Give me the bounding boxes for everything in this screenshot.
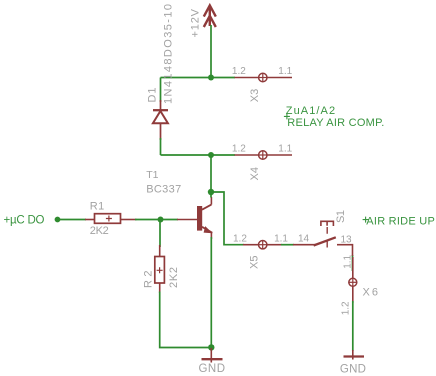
svg-text:1.1: 1.1 [342, 254, 353, 268]
net label ZuA1/A2 RELAY AIR COMP. [284, 105, 384, 129]
wire emitter down to GND junction [210, 237, 212, 348]
svg-text:ZuA1/A2: ZuA1/A2 [286, 105, 335, 117]
svg-text:X3: X3 [249, 89, 261, 103]
wire R2 down and to GND junction [160, 292, 211, 348]
diode D1 [153, 100, 168, 140]
switch S1 [293, 221, 353, 247]
svg-text:1.2: 1.2 [233, 234, 247, 245]
svg-text:1.1: 1.1 [278, 144, 292, 155]
svg-text:2K2: 2K2 [168, 267, 180, 288]
svg-text:GND: GND [199, 363, 226, 375]
wire µC DO to R1 [58, 219, 86, 221]
svg-text:+µC DO: +µC DO [4, 214, 45, 226]
svg-text:14: 14 [298, 233, 310, 244]
svg-text:1.2: 1.2 [341, 301, 352, 315]
svg-text:+12V: +12V [189, 8, 201, 37]
svg-text:1.1: 1.1 [278, 66, 292, 77]
connector X3 [235, 73, 293, 81]
svg-text:T1: T1 [146, 169, 158, 181]
svg-text:RELAY AIR COMP.: RELAY AIR COMP. [287, 117, 384, 129]
svg-text:X4: X4 [249, 167, 261, 181]
junction base node [158, 217, 164, 223]
svg-text:2K2: 2K2 [90, 225, 109, 237]
wire collector node to X5 (right and down) [211, 192, 244, 245]
svg-text:R1: R1 [90, 200, 105, 212]
supply +12V symbol [204, 5, 216, 27]
pin dot µC DO [55, 217, 61, 223]
svg-text:X5: X5 [249, 256, 261, 270]
svg-text:1.2: 1.2 [232, 144, 246, 155]
junction on X4 net [208, 152, 214, 158]
wire junction down to collector node [210, 155, 212, 192]
junction on +12V net [208, 75, 214, 81]
svg-text:D1: D1 [147, 88, 159, 103]
net label AIR RIDE UP [363, 215, 435, 227]
wire anode horizontal to X4 [161, 154, 236, 156]
wire +12V vertical [210, 25, 212, 78]
svg-text:GND: GND [340, 364, 366, 376]
resistor R1 [85, 214, 137, 224]
svg-text:S1: S1 [335, 210, 347, 223]
svg-text:13: 13 [341, 234, 353, 245]
wire collector stub [210, 192, 212, 198]
ground GND right [344, 350, 365, 360]
wire base junction to T1 [161, 219, 179, 221]
wire D1 anode down [160, 138, 162, 155]
connector X4 [235, 151, 293, 159]
junction GND node [208, 344, 214, 350]
resistor R2 [155, 245, 165, 293]
wire R1 to base junction [135, 219, 161, 221]
transistor T1 [177, 197, 213, 239]
wire +12V horizontal [161, 77, 236, 79]
svg-text:1.1: 1.1 [274, 233, 288, 244]
wire base junction down to R2 [159, 220, 161, 248]
svg-text:AIR RIDE UP: AIR RIDE UP [366, 215, 435, 227]
svg-text:1.2: 1.2 [232, 66, 246, 77]
connector X6 [349, 257, 357, 303]
wire X6 down to GND [352, 301, 354, 351]
wire X5 to S1 [281, 244, 294, 246]
junction collector node [208, 189, 214, 195]
svg-text:BC337: BC337 [146, 184, 181, 196]
ground GND left [202, 348, 223, 363]
connector X5 [243, 241, 282, 249]
wire S1 down to X6 [352, 255, 354, 271]
wire to D1 cathode [160, 78, 162, 103]
